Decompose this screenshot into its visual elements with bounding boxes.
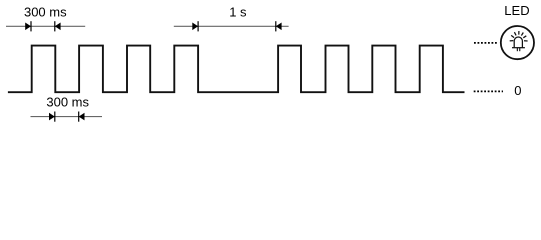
LED rays fan	[510, 31, 528, 41]
LED lamp leg right	[519, 48, 521, 52]
node tick left top	[30, 21, 32, 31]
node tick left 1s	[197, 21, 199, 31]
LED lamp dome	[514, 37, 522, 48]
node tick right top	[54, 21, 56, 31]
node dim-line 1s	[174, 25, 289, 27]
node tick right bottom	[78, 112, 80, 122]
svg-text:300 ms: 300 ms	[46, 94, 89, 109]
wire dotted low-level lead to 0	[474, 90, 503, 92]
wire waveform square wave	[8, 46, 465, 93]
LED lamp leg left	[516, 48, 518, 52]
node arrow left-pointing 1s dim	[276, 23, 282, 31]
wire dotted high-level lead to LED	[474, 42, 498, 44]
svg-text:1 s: 1 s	[229, 5, 247, 20]
LED indicator symbol circle	[501, 26, 534, 59]
node tick right 1s	[275, 21, 277, 31]
LED lamp base line	[512, 47, 525, 49]
node dim-line 300ms bottom	[31, 116, 103, 118]
svg-text:0: 0	[514, 83, 521, 98]
node arrow left-pointing bottom dim	[79, 113, 85, 121]
svg-text:300 ms: 300 ms	[24, 5, 67, 20]
svg-text:LED: LED	[504, 3, 529, 18]
node tick left bottom	[54, 112, 56, 122]
node arrow right-pointing 1s dim	[192, 23, 198, 31]
node dim-line 300ms top	[6, 25, 85, 27]
node arrow right-pointing bottom dim	[49, 113, 55, 121]
node arrow right-pointing top-left dim	[25, 23, 31, 31]
node arrow left-pointing top-left dim	[55, 23, 61, 31]
